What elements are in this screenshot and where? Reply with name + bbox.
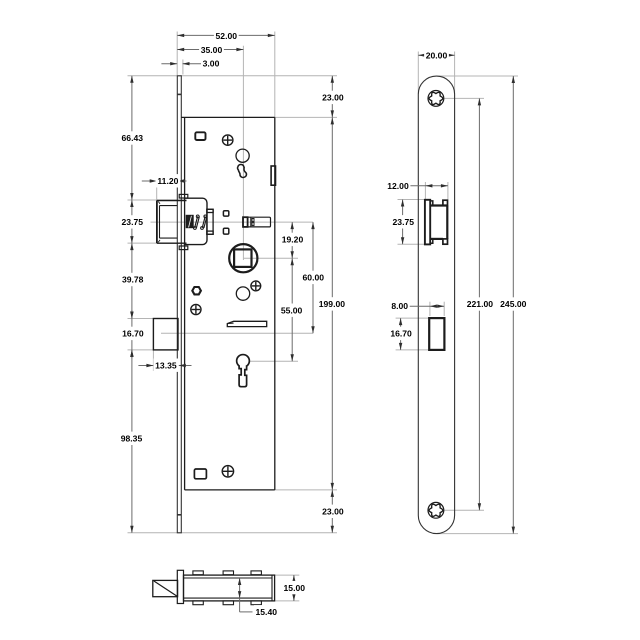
dimension 19.20	[280, 222, 305, 258]
svg-text:221.00: 221.00	[467, 299, 494, 309]
stop pin	[243, 217, 271, 227]
faceplate (front view)	[418, 76, 454, 534]
svg-text:3.00: 3.00	[203, 59, 220, 69]
dimension 23.75 (right)	[391, 200, 416, 245]
middle hole	[236, 287, 249, 300]
svg-text:23.00: 23.00	[322, 507, 344, 517]
svg-text:15.40: 15.40	[256, 607, 278, 617]
lower-left screw	[191, 304, 201, 314]
bottom cable hole	[194, 469, 206, 479]
svg-text:52.00: 52.00	[216, 31, 238, 41]
svg-text:98.35: 98.35	[121, 434, 143, 444]
svg-text:35.00: 35.00	[201, 45, 223, 55]
dimension 35.00	[177, 43, 243, 56]
dimension 20.00	[418, 48, 454, 61]
dimension 245.00	[499, 76, 529, 534]
svg-text:20.00: 20.00	[426, 50, 448, 60]
dimension 13.35	[138, 359, 191, 372]
dimension 221.00	[465, 98, 495, 510]
guide slot	[227, 321, 266, 326]
bottom torx screw	[428, 502, 444, 518]
svg-text:23.75: 23.75	[122, 217, 144, 227]
dimension 60.00	[301, 222, 326, 333]
stop tab on right edge	[271, 166, 275, 185]
dimension 39.78	[120, 243, 145, 318]
top cable hole	[195, 132, 205, 140]
dimension 55.00	[279, 258, 304, 361]
latch bolt (plan view)	[153, 580, 178, 596]
svg-text:39.78: 39.78	[122, 275, 144, 285]
dimension 52.00	[177, 29, 275, 42]
svg-text:12.00: 12.00	[387, 181, 409, 191]
faceplate strip (side view)	[177, 76, 181, 533]
dimension 16.70 (right)	[389, 318, 414, 350]
cam follower slot	[237, 164, 247, 179]
top torx screw	[428, 91, 444, 107]
lock body outline	[181, 117, 274, 490]
keyhole	[237, 355, 250, 387]
spindle hub with square follower	[229, 244, 257, 272]
latch cutout (front)	[425, 200, 448, 245]
svg-text:13.35: 13.35	[155, 360, 177, 370]
square hole B	[223, 228, 228, 234]
svg-text:19.20: 19.20	[282, 235, 304, 245]
svg-text:23.75: 23.75	[393, 217, 415, 227]
dimension 66.43	[120, 76, 145, 200]
dimension 8.00	[390, 299, 445, 312]
dimension 98.35	[119, 350, 144, 533]
latch case	[179, 194, 213, 249]
latch bolt head	[157, 201, 187, 244]
svg-text:15.00: 15.00	[284, 583, 306, 593]
svg-text:55.00: 55.00	[281, 305, 303, 315]
svg-text:16.70: 16.70	[390, 329, 412, 339]
dimension 11.20	[142, 174, 187, 187]
top screw	[223, 135, 233, 145]
lock body (plan view)	[184, 575, 275, 601]
svg-text:66.43: 66.43	[122, 133, 144, 143]
square hole A	[223, 211, 228, 216]
extension lines (right view)	[396, 52, 518, 534]
svg-text:60.00: 60.00	[303, 273, 325, 283]
upper hole	[236, 149, 249, 162]
dimension 3.00	[161, 57, 221, 70]
svg-text:16.70: 16.70	[122, 329, 144, 339]
dimension 15.00	[282, 575, 307, 601]
dimension 16.70 (left)	[121, 310, 146, 358]
dimension 23.75 (left)	[120, 200, 145, 243]
latch spring	[186, 215, 207, 229]
svg-text:8.00: 8.00	[391, 301, 408, 311]
dimension 23.00 (bottom)	[321, 490, 346, 533]
svg-text:245.00: 245.00	[500, 299, 527, 309]
dimension 15.40	[238, 578, 279, 619]
screw near spindle	[251, 281, 261, 291]
svg-text:11.20: 11.20	[157, 176, 178, 186]
dimension 199.00	[317, 117, 347, 490]
faceplate strip (plan view)	[177, 570, 183, 603]
bottom screw	[222, 466, 233, 477]
extension and center lines (left view)	[128, 32, 338, 533]
extension lines (bottom view)	[275, 575, 300, 601]
hex nut	[192, 287, 201, 294]
dimension 12.00	[386, 179, 448, 192]
svg-text:23.00: 23.00	[322, 93, 344, 103]
deadbolt cutout (front)	[429, 318, 444, 350]
mounting tabs	[193, 571, 262, 605]
svg-text:199.00: 199.00	[319, 299, 346, 309]
deadbolt (retracted)	[153, 319, 178, 350]
dimension 23.00 (top)	[321, 76, 346, 118]
